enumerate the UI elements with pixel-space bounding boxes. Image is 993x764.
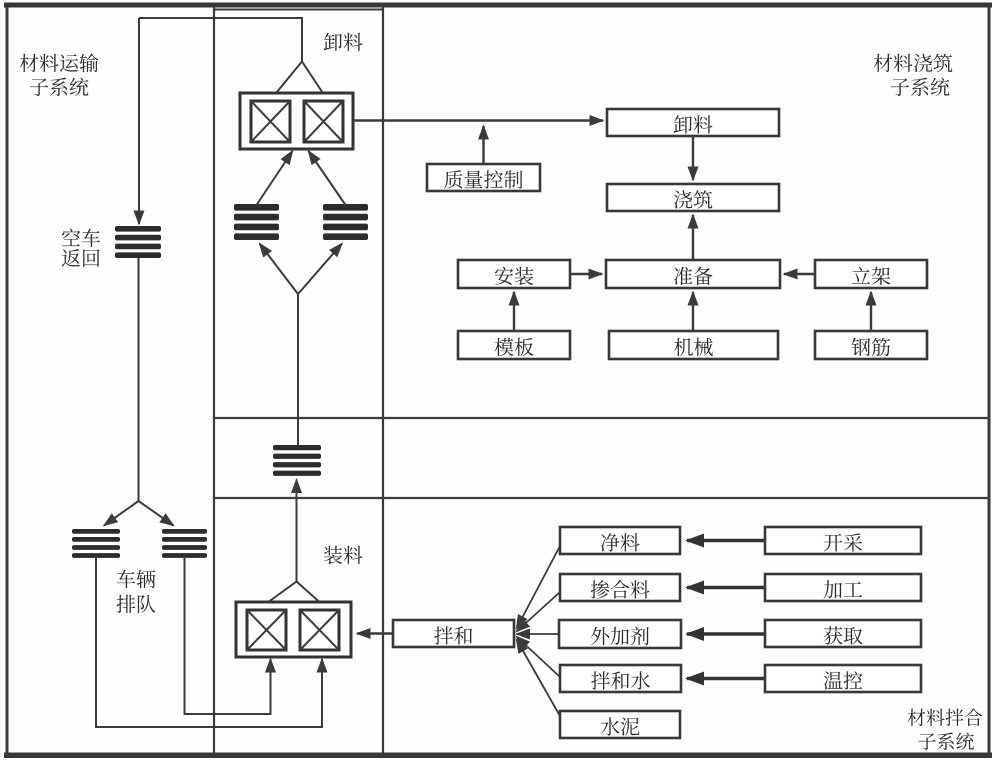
wire+arrow: 拌和 left to T2 (357, 632, 393, 634)
box 温控 (765, 665, 921, 694)
box cement (560, 711, 680, 740)
svg-text:子系统: 子系统 (890, 72, 950, 101)
wire+arrow: 开采 thick arrow to 净料 (687, 539, 765, 542)
box mixing (393, 620, 514, 649)
box machinery (609, 331, 778, 361)
svg-text:准备: 准备 (673, 261, 713, 290)
svg-text:浇筑: 浇筑 (673, 184, 713, 213)
queue symbol: Q4 vehicle queue left (72, 529, 120, 558)
wire+arrow: Q3 top to T1 bottom (309, 151, 346, 205)
wire+arrow: V leg up into Q3 bottom (298, 244, 342, 295)
wire+arrow: 加工 thick arrow to 掺合料 (687, 586, 765, 589)
svg-text:装料: 装料 (323, 540, 363, 569)
svg-text:钢筋: 钢筋 (851, 332, 891, 361)
wire+arrow: 钢筋 up to 立架 (870, 292, 872, 331)
box rebar (815, 331, 927, 361)
wire+arrow: fan line 净料 to 拌和 (517, 546, 561, 629)
queue symbol: Q5 vehicle queue right (162, 529, 207, 558)
svg-text:外加剂: 外加剂 (590, 621, 650, 650)
outer border thick bottom edge (4, 753, 992, 759)
wire+arrow: 安装 right to 准备 (570, 273, 602, 275)
wire+arrow: Q2 top to T1 bottom (257, 151, 293, 205)
queue symbol: Q1 空车返回 (115, 226, 161, 258)
box 卸料 (unload) (607, 109, 779, 138)
wire: lambda legs from vertex (296.5,581.5) to T2 top (269, 582, 297, 602)
svg-text:卸料: 卸料 (323, 27, 363, 56)
transition box T1 卸料/unloading (two X-squares) (240, 93, 353, 149)
svg-text:掺合料: 掺合料 (590, 574, 650, 603)
wire+arrow: fan line 外加剂 to 拌和 (517, 633, 560, 635)
horizontal region line y=418 (bottom of unloading box / pouring region) (213, 417, 989, 419)
svg-text:立架: 立架 (851, 261, 891, 290)
wire+arrow: 立架 left to 准备 (784, 273, 815, 275)
outer border thick top edge (4, 3, 992, 8)
wire+arrow: V leg to queue Q5 (139, 501, 174, 526)
vertical region line x=383 (middle column / right regions divider) (382, 7, 384, 753)
wire+arrow: 卸料 down to 浇筑 (692, 136, 694, 180)
svg-text:子系统: 子系统 (29, 72, 89, 101)
box erect frame (815, 260, 927, 290)
svg-text:返回: 返回 (61, 243, 101, 272)
queue symbol: Qm middle between regions (273, 445, 321, 476)
transition box T2 装料/loading (two X-squares) (236, 602, 351, 657)
wire+arrow: down into 空车返回 queue at x=139 (138, 18, 140, 224)
wire+arrow: Q5 bottom loop to T2 left square bottom (185, 558, 271, 714)
box additive (559, 620, 681, 650)
svg-text:拌和水: 拌和水 (591, 665, 651, 694)
box admixture material (560, 574, 680, 603)
box clean aggregate (560, 527, 680, 556)
queue symbol: Q3 right under T1 (323, 204, 368, 240)
svg-text:获取: 获取 (823, 620, 863, 649)
wire+arrow: fan line 水泥 to 拌和 (517, 640, 561, 717)
wire+arrow: Q4 bottom loop to T2 right square bottom (96, 558, 322, 727)
queue symbol: Q2 left under T1 (234, 204, 279, 240)
svg-text:净料: 净料 (600, 527, 640, 556)
svg-text:质量控制: 质量控制 (444, 164, 524, 193)
svg-text:排队: 排队 (116, 589, 156, 618)
svg-text:开采: 开采 (823, 527, 863, 556)
wire+arrow: from T2 lambda vertex up into Qm bottom (296, 480, 298, 582)
wire+arrow: 机械 up to 准备 (692, 292, 694, 331)
wire+arrow: 获取 thick arrow to 外加剂 (687, 632, 765, 635)
svg-text:温控: 温控 (823, 665, 863, 694)
box 加工 (765, 574, 921, 603)
wire+arrow: T1 right edge to 卸料 box (353, 119, 603, 121)
svg-text:安装: 安装 (494, 261, 534, 290)
wire+arrow: 温控 thick arrow to 拌和水 (687, 677, 765, 680)
box pouring (607, 184, 779, 213)
box mixing water (560, 665, 681, 694)
box formwork (458, 331, 570, 361)
svg-text:子系统: 子系统 (917, 728, 974, 755)
top inner edge of middle column box (214, 9, 383, 11)
box prepare (606, 260, 780, 290)
box install (458, 260, 570, 290)
wire+arrow: V leg to queue Q4 (104, 501, 139, 526)
box 开采 (765, 527, 921, 556)
wire: top-left horizontal from x=139 to x=302 at y=18 (139, 18, 302, 62)
svg-text:机械: 机械 (674, 332, 714, 361)
svg-text:材料拌合: 材料拌合 (907, 704, 983, 731)
wire+arrow: 模板 up to 安装 (513, 292, 515, 331)
wire+arrow: fan line 拌和水 to 拌和 (517, 637, 561, 678)
wire+arrow: 准备 up to 浇筑 (692, 215, 694, 260)
wire+arrow: V leg up into Q2 bottom (260, 244, 299, 295)
wire+arrow: fan line 掺合料 to 拌和 (517, 592, 561, 632)
box quality control (427, 164, 540, 193)
wire: lambda legs from vertex (302,61.5) to T1 top (277, 62, 303, 93)
wire: from Q1 bottom down to V vertex (138.5,502) (138, 258, 140, 502)
vertical region line x=214 (transport / middle column divider) (213, 7, 215, 753)
svg-text:加工: 加工 (823, 574, 863, 603)
box 获取 (765, 620, 921, 649)
svg-text:卸料: 卸料 (673, 109, 713, 138)
wire+arrow: 质量控制 up to wire (482, 126, 484, 163)
svg-text:模板: 模板 (494, 332, 534, 361)
svg-text:拌和: 拌和 (434, 620, 474, 649)
wire: stem below V vertex (298,295) down to middle queue (297, 294, 299, 445)
svg-text:水泥: 水泥 (600, 711, 640, 740)
horizontal region line y=498 (top of loading box / mixing region) (213, 497, 989, 499)
